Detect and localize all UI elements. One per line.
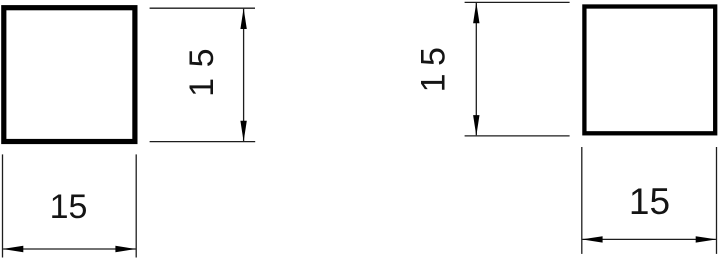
extension line below-right of left square bbox=[135, 154, 137, 257]
arrowhead right (left horizontal dimension) bbox=[115, 246, 136, 252]
extension line bottom left of right square bbox=[465, 135, 570, 137]
arrowhead down (right vertical dimension) bbox=[473, 115, 479, 136]
svg-text:15: 15 bbox=[629, 181, 670, 222]
square right (thin outline 15x15) bbox=[584, 7, 715, 134]
svg-text:15: 15 bbox=[183, 38, 221, 97]
arrowhead down (left vertical dimension) bbox=[240, 121, 246, 142]
square left (thick outline 15x15) bbox=[4, 8, 135, 142]
dimension line vertical left group bbox=[243, 9, 245, 141]
extension line below-left of right square bbox=[581, 147, 583, 254]
svg-text:15: 15 bbox=[415, 40, 453, 93]
dimension line horizontal right group bbox=[582, 238, 716, 240]
extension line below-left of left square bbox=[2, 154, 4, 257]
extension line below-right of right square bbox=[716, 147, 718, 254]
extension line top right of left square bbox=[150, 7, 255, 9]
svg-text:15: 15 bbox=[50, 188, 88, 226]
arrowhead up (right vertical dimension) bbox=[473, 2, 479, 23]
arrowhead up (left vertical dimension) bbox=[240, 8, 246, 29]
arrowhead right (right horizontal dimension) bbox=[696, 236, 717, 242]
extension line top left of right square bbox=[465, 1, 570, 3]
arrowhead left (left horizontal dimension) bbox=[3, 246, 24, 252]
extension line bottom right of left square bbox=[150, 141, 256, 143]
arrowhead left (right horizontal dimension) bbox=[582, 236, 603, 242]
dimension line horizontal left group bbox=[3, 248, 136, 250]
dimension line vertical right group bbox=[475, 3, 477, 135]
